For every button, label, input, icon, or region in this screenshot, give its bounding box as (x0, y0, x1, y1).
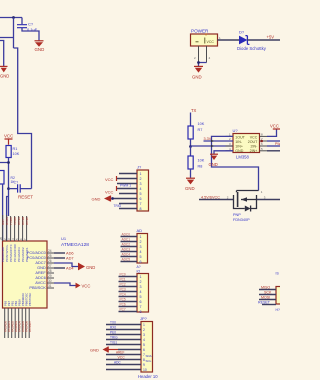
svg-text:GND: GND (192, 75, 202, 80)
svg-text:2: 2 (140, 240, 142, 244)
svg-text:1: 1 (140, 172, 142, 176)
svg-text:ADC4: ADC4 (122, 253, 131, 257)
svg-text:PNP: PNP (233, 213, 241, 217)
svg-text:1: 1 (143, 323, 145, 327)
U1 top pin numbers (0, 236, 27, 240)
AD net labels (122, 233, 131, 262)
svg-text:2IN-: 2IN- (251, 145, 259, 149)
svg-text:JP?: JP? (140, 316, 148, 321)
node J1 pin6 junction (111, 197, 114, 200)
svg-text:28: 28 (48, 269, 52, 273)
svg-text:3: 3 (140, 182, 142, 186)
U1 right pin stubs (47, 253, 54, 288)
svg-text:25: 25 (48, 254, 52, 258)
svg-text:C?: C? (14, 181, 19, 185)
svg-text:AREF: AREF (116, 351, 125, 355)
svg-text:GND: GND (90, 347, 99, 352)
svg-text:ADC: ADC (114, 361, 121, 365)
connector ISP (276, 272, 285, 312)
svg-text:PC5: PC5 (120, 298, 126, 302)
svg-text:POWER: POWER (191, 29, 209, 34)
U1 top pins (3, 215, 27, 241)
svg-text:PA5/AD5: PA5/AD5 (21, 321, 25, 332)
svg-text:ADC5: ADC5 (122, 258, 131, 262)
svg-text:ADC1: ADC1 (122, 238, 131, 242)
wire POWER pins join (199, 63, 207, 67)
POWER connector P1 (191, 29, 218, 46)
svg-text:ADC2: ADC2 (122, 243, 131, 247)
svg-text:R7: R7 (198, 128, 203, 132)
wire R7 to node (190, 139, 192, 147)
svg-text:TRIG: TRIG (110, 336, 118, 340)
ground GND4 (185, 178, 195, 191)
wire VCC pin U2 (267, 129, 277, 136)
svg-text:VCC: VCC (4, 134, 13, 139)
svg-text:PA1/AD1: PA1/AD1 (7, 321, 11, 332)
svg-text:3: 3 (140, 285, 142, 289)
wire 2IN+ to edge (267, 150, 280, 152)
wire diode to +5V (247, 39, 280, 41)
svg-text:MOSI: MOSI (261, 296, 270, 300)
svg-text:AD4: AD4 (66, 265, 74, 270)
svg-text:1IN-: 1IN- (235, 140, 243, 144)
svg-text:PA6/AD6: PA6/AD6 (24, 321, 28, 332)
IO pin wires (119, 277, 138, 312)
svg-text:5: 5 (140, 255, 142, 259)
svg-text:AD7: AD7 (66, 255, 74, 260)
svg-text:SCK: SCK (264, 291, 272, 295)
ground GND5 (209, 154, 219, 167)
svg-text:7: 7 (140, 202, 142, 206)
resistor R2 (0, 171, 15, 189)
svg-text:2: 2 (140, 280, 142, 284)
svg-text:PB3A: PB3A (17, 299, 21, 306)
svg-text:VCC: VCC (105, 177, 114, 182)
svg-text:5: 5 (140, 295, 142, 299)
svg-text:RESET: RESET (258, 301, 271, 305)
wire AD7 (54, 257, 65, 259)
POWER right pin wire to diode (218, 39, 240, 41)
svg-text:PB7/TOSC: PB7/TOSC (28, 293, 32, 306)
U1 bottom pin labels (3, 321, 32, 332)
svg-text:PA7/AD7: PA7/AD7 (28, 321, 32, 332)
svg-text:TX0: TX0 (110, 321, 116, 325)
svg-text:PW: PW (275, 142, 280, 146)
svg-text:OC3C: OC3C (25, 216, 29, 225)
capacitor C1 (17, 25, 27, 28)
wire C1 to ground (22, 28, 39, 41)
svg-text:5: 5 (140, 192, 142, 196)
svg-text:PWM 1: PWM 1 (120, 183, 131, 187)
svg-text:C?: C? (28, 22, 34, 27)
svg-text:GND: GND (0, 74, 9, 79)
wire R8 to ground (190, 169, 192, 178)
svg-text:LM358: LM358 (236, 154, 249, 159)
svg-text:2: 2 (143, 328, 145, 332)
wire node to 1IN+ (191, 145, 234, 147)
wire AD6 (54, 252, 65, 254)
svg-text:PB1: PB1 (10, 300, 14, 306)
svg-text:VCC: VCC (82, 284, 91, 289)
wire drain side (257, 199, 281, 201)
ground GND J1 (92, 196, 111, 202)
svg-text:5: 5 (143, 343, 145, 347)
wire left edge to ground (0, 41, 4, 67)
power VCC J1 pin4 (105, 186, 117, 195)
svg-text:6: 6 (140, 300, 142, 304)
svg-text:PA4/AD4: PA4/AD4 (17, 321, 21, 332)
capacitor C2 (9, 181, 32, 193)
ground GND2 (0, 66, 9, 78)
svg-text:26: 26 (48, 259, 52, 263)
svg-text:RX0: RX0 (110, 326, 116, 330)
U2 left pin stubs (226, 136, 234, 150)
svg-text:10K: 10K (198, 122, 205, 126)
svg-text:8: 8 (140, 207, 142, 211)
svg-text:1IN+: 1IN+ (235, 145, 243, 149)
ground GND3 (192, 66, 203, 79)
connector IO (137, 265, 149, 314)
svg-text:8: 8 (140, 310, 142, 314)
IC U1 ATMEGA128 (3, 236, 90, 308)
svg-text:R1: R1 (13, 147, 18, 151)
U1 bottom pins (5, 308, 30, 338)
svg-text:PC7: PC7 (120, 308, 126, 312)
resistor R8 (188, 156, 205, 169)
U1 inside top pin names (1, 243, 29, 262)
wire TX to R7 (190, 113, 192, 127)
AD pin wires (121, 237, 138, 262)
wire GND pin (54, 263, 78, 267)
svg-text:1OUT: 1OUT (235, 135, 245, 139)
svg-text:PA3/AD3: PA3/AD3 (14, 321, 18, 332)
node junction top-left (12, 16, 15, 19)
resistor R1 (6, 146, 20, 158)
svg-text:PB5/SCK: PB5/SCK (29, 285, 46, 290)
U2 right pin stubs (260, 136, 268, 150)
connector J1 (137, 165, 149, 211)
svg-text:PA2/AD2: PA2/AD2 (10, 321, 14, 332)
svg-text:PC1: PC1 (120, 278, 126, 282)
svg-text:PB2: PB2 (14, 300, 18, 306)
svg-text:Diode Schottky: Diode Schottky (237, 46, 267, 51)
svg-text:ATMEGA128: ATMEGA128 (61, 242, 89, 248)
svg-text:29: 29 (48, 274, 52, 278)
power VCC1 (4, 134, 13, 145)
svg-text:TX: TX (191, 108, 197, 113)
svg-text:2: 2 (140, 177, 142, 181)
svg-text:FDN340P: FDN340P (233, 218, 250, 222)
svg-text:7: 7 (140, 305, 142, 309)
wire reset to U1 pins (3, 188, 9, 241)
node POWER gnd junction (197, 61, 200, 64)
svg-text:U1: U1 (61, 236, 67, 241)
svg-text:31: 31 (48, 284, 52, 288)
svg-text:4: 4 (140, 250, 142, 254)
svg-text:2IN+: 2IN+ (250, 149, 258, 153)
JP pin wires (106, 325, 141, 370)
svg-text:1: 1 (140, 275, 142, 279)
svg-text:U?: U? (233, 128, 239, 133)
svg-text:1: 1 (140, 235, 142, 239)
wire source side (199, 199, 234, 201)
U1 inside bottom pin names (3, 293, 32, 306)
U1 inside right pin names (27, 250, 47, 290)
wire R1 bottom (0, 158, 9, 217)
svg-text:RESET: RESET (18, 195, 33, 200)
svg-text:3: 3 (143, 333, 145, 337)
svg-text:SCL: SCL (146, 359, 152, 363)
svg-text:PE6: PE6 (3, 300, 7, 306)
diode D1 Schottky (237, 30, 267, 51)
svg-text:30: 30 (48, 279, 52, 283)
node 2OUT junction (260, 140, 263, 143)
svg-text:GND: GND (185, 186, 195, 191)
wire 3.3V to 1IN- (204, 140, 234, 142)
power VCC right of U1 (76, 283, 91, 289)
U1 top pin labels (1, 216, 29, 225)
svg-text:TRIG: TRIG (114, 204, 122, 208)
connector JP header10 (138, 316, 158, 379)
junction arrow 1IN+ (211, 145, 214, 148)
op-amp U2 LM358 (233, 128, 260, 159)
svg-text:27: 27 (48, 264, 52, 268)
ground GND right of U1 (78, 263, 95, 271)
IO net labels (120, 273, 126, 312)
svg-text:10: 10 (143, 368, 147, 372)
svg-text:D?: D? (239, 30, 245, 35)
svg-text:PC4: PC4 (120, 293, 126, 297)
node RESET junction (7, 161, 10, 164)
node C2 junction (7, 187, 10, 190)
svg-text:PE0: PE0 (110, 331, 116, 335)
wire top-left horizontal (0, 17, 22, 19)
svg-text:24: 24 (48, 249, 52, 253)
power VCC J1 pin2 (105, 176, 117, 182)
ISP net labels (258, 286, 272, 305)
wire long left loop down to C2 (14, 48, 32, 189)
svg-text:TIG1: TIG1 (110, 341, 117, 345)
svg-text:GND: GND (35, 47, 45, 52)
svg-text:MISO: MISO (261, 286, 270, 290)
svg-text:H?: H? (276, 308, 280, 312)
wire node to R8 (190, 147, 192, 157)
svg-text:GND: GND (209, 162, 218, 167)
connector AD (137, 228, 148, 264)
svg-text:6: 6 (140, 197, 142, 201)
svg-text:4: 4 (143, 338, 145, 342)
JP net labels (110, 321, 121, 365)
svg-text:10K: 10K (13, 152, 20, 156)
ground GND JP (90, 347, 118, 353)
svg-text:4: 4 (140, 290, 142, 294)
svg-text:PC3: PC3 (120, 288, 126, 292)
svg-text:ADC3: ADC3 (122, 248, 131, 252)
arrow into channel (241, 197, 247, 202)
J1 pin wires (113, 174, 138, 209)
ground GND1 (35, 41, 45, 52)
svg-text:R8: R8 (198, 165, 203, 169)
svg-text:PC6: PC6 (120, 303, 126, 307)
svg-text:VCC: VCC (270, 124, 279, 129)
svg-text:VCC: VCC (105, 190, 114, 195)
svg-text:2OUT: 2OUT (248, 140, 258, 144)
junction arrow 1IN- (211, 140, 214, 143)
svg-text:VCC: VCC (118, 356, 126, 360)
svg-text:GND: GND (86, 265, 95, 270)
svg-text:6: 6 (143, 348, 145, 352)
svg-text:10K: 10K (198, 159, 205, 163)
svg-text:PB6/TOSC: PB6/TOSC (24, 293, 28, 306)
svg-text:AD: AD (137, 228, 143, 233)
svg-text:PB4/M16U: PB4/M16U (21, 293, 25, 306)
node divider junction (189, 145, 192, 148)
U1 right pin numbers (48, 249, 52, 288)
svg-text:A?: A? (137, 265, 141, 269)
wire to capacitor C1 (21, 18, 23, 25)
svg-text:GND: GND (92, 196, 101, 201)
svg-text:6: 6 (140, 260, 142, 264)
wire 1OUT to gate loop (212, 136, 259, 190)
wire GND pin U2 (214, 151, 233, 154)
wire AD4 (54, 267, 65, 269)
svg-text:VCC: VCC (250, 135, 258, 139)
ISP pin wires (259, 290, 276, 305)
POWER bottom pins (199, 46, 207, 63)
wire AVCC to VCC (54, 283, 76, 286)
svg-text:PC0: PC0 (120, 273, 126, 277)
svg-text:3: 3 (140, 245, 142, 249)
svg-text:3.3V: 3.3V (204, 137, 212, 141)
svg-text:PC2: PC2 (120, 283, 126, 287)
svg-text:VCC: VCC (207, 40, 215, 44)
body diode triangle (245, 206, 251, 212)
svg-text:9: 9 (143, 363, 145, 367)
svg-text:PA0/AD0: PA0/AD0 (3, 321, 7, 332)
svg-text:GND: GND (235, 149, 243, 153)
svg-text:+5V: +5V (267, 34, 275, 39)
wire 2OUT to edge (267, 140, 280, 142)
wire junction down and left to edge (0, 18, 14, 49)
svg-text:4: 4 (140, 187, 142, 191)
svg-text:ADC0: ADC0 (122, 233, 131, 237)
svg-text:Header 10: Header 10 (138, 374, 158, 379)
wire 2IN- to edge (267, 145, 280, 147)
svg-text:PE7: PE7 (7, 300, 11, 306)
power VCC2 (270, 124, 280, 129)
resistor R7 (188, 122, 205, 139)
svg-text:SDA: SDA (146, 354, 152, 358)
